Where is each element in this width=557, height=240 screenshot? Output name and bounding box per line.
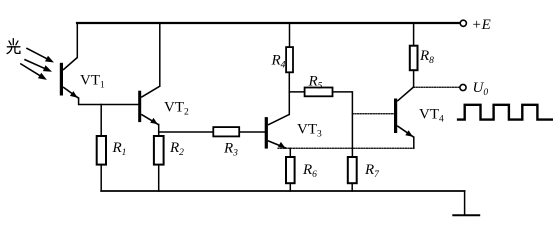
light arrow 1	[26, 48, 54, 62]
wire: R6 bottom lead	[289, 183, 291, 191]
terminal U0	[460, 84, 466, 90]
wire: R1 bottom lead	[100, 165, 102, 191]
square wave output symbol	[457, 105, 553, 120]
wire: R5 right lead and drop to R7	[333, 92, 353, 157]
wire: VT2 emitter drop to R2	[158, 125, 160, 137]
transistor VT3	[265, 114, 290, 148]
wire: R5 left lead	[289, 91, 304, 93]
resistor R4	[286, 47, 293, 72]
wire: top +E supply rail	[77, 22, 460, 24]
wire: R8 bottom lead to VT4 collector node	[413, 70, 415, 87]
resistor R8	[410, 46, 418, 70]
wire: VT1 collector riser	[76, 23, 78, 58]
svg-text:+E: +E	[472, 17, 491, 33]
resistor R6	[286, 157, 295, 183]
wire: R7 bottom lead	[351, 183, 353, 191]
transistor VT4	[394, 87, 414, 137]
resistor R1	[97, 136, 106, 165]
wire: R3 right lead to VT3 base	[239, 131, 265, 133]
wire: VT1 emitter to VT2 base node	[79, 98, 140, 105]
wire: node B to R3 left lead	[159, 131, 214, 133]
wire: VT4 emitter drop	[413, 137, 415, 148]
phototransistor VT1	[60, 58, 79, 99]
transistor VT2	[138, 86, 160, 125]
wire: dotted link to VT4 base	[352, 113, 394, 115]
wire: dotted output line to U0 terminal	[414, 86, 460, 88]
wire: dotted common emitter rail	[278, 147, 414, 149]
terminal +E	[460, 20, 466, 26]
wire: bottom ground rail	[101, 190, 464, 192]
wire: R8 top lead	[413, 23, 415, 46]
resistor R5	[305, 88, 333, 97]
light arrow 2	[24, 59, 52, 71]
wire: R4 top lead	[289, 23, 291, 47]
wire: R6 top lead	[289, 148, 291, 157]
resistor R2	[154, 136, 164, 165]
wire: VT3 collector riser to R4	[288, 72, 290, 114]
wire: R1 top lead	[100, 105, 102, 137]
light arrow 3	[20, 64, 47, 80]
resistor R7	[348, 157, 357, 183]
wire: R2 bottom lead	[158, 165, 160, 191]
resistor R3	[213, 127, 239, 136]
light ideogram (Chinese char for light)	[7, 39, 20, 54]
wire: VT2 collector riser	[159, 23, 161, 86]
ground	[464, 191, 466, 215]
